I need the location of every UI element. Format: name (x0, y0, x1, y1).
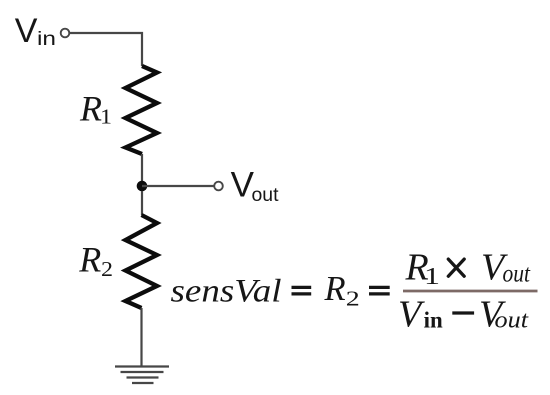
label R2 (78, 240, 113, 281)
times sign (448, 259, 464, 276)
svg-text:in: in (37, 29, 56, 50)
wire node to R2 (141, 191, 143, 215)
minus sign (452, 311, 474, 314)
label R1 (79, 89, 112, 129)
svg-text:R: R (78, 240, 101, 280)
svg-text:2: 2 (346, 286, 360, 310)
fraction bar (403, 290, 538, 293)
svg-text:V: V (15, 12, 38, 50)
svg-text:out: out (503, 261, 531, 288)
resistor R1 (126, 66, 158, 154)
svg-text:out: out (252, 185, 280, 206)
svg-text:out: out (495, 308, 530, 334)
svg-text:sensVal: sensVal (171, 273, 282, 309)
formula sensVal = R2 = (R1 x Vout)/(Vin - Vout) (171, 247, 538, 336)
svg-text:1: 1 (424, 264, 440, 290)
wire R2 to ground (140, 308, 142, 366)
svg-text:1: 1 (100, 104, 112, 128)
node junction (137, 181, 148, 192)
equals sign 1 (292, 287, 312, 294)
equals sign 2 (369, 287, 390, 294)
resistor R2 (126, 215, 158, 308)
svg-text:R: R (324, 270, 346, 308)
terminal Vin (61, 29, 70, 38)
svg-text:R: R (79, 89, 102, 129)
label Vin (15, 12, 56, 50)
wire R1 to node (141, 154, 143, 186)
ground (115, 367, 169, 384)
wire node to Vout (142, 185, 214, 187)
label Vout (231, 166, 280, 206)
svg-text:V: V (398, 293, 425, 335)
svg-text:in: in (424, 308, 443, 333)
svg-text:2: 2 (101, 257, 113, 281)
wire Vin to R1 (70, 33, 143, 66)
terminal Vout (214, 182, 223, 191)
